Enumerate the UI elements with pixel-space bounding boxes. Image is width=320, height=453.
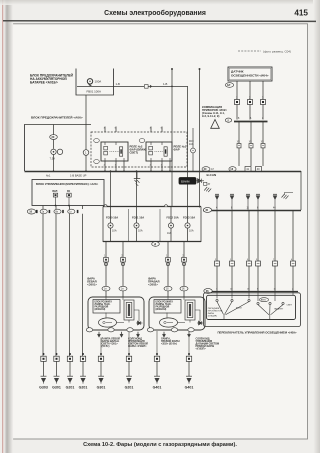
- svg-text:ПЕРЕКЛЮЧАТЕЛЬ УПРАВЛЕНИЯ ОСВЕЩ: ПЕРЕКЛЮЧАТЕЛЬ УПРАВЛЕНИЯ ОСВЕЩЕНИЕМ <Н09…: [217, 330, 296, 334]
- svg-text:<У102П>: <У102П>: [196, 347, 207, 350]
- ground below relay1: [134, 171, 140, 186]
- svg-text:G401: G401: [153, 385, 162, 389]
- fuse block A06 outline: [25, 125, 92, 172]
- left page-edge gradient: [4, 0, 14, 453]
- lamp/connector symbol col4: [80, 353, 85, 361]
- left headlamp label: [87, 277, 97, 287]
- right unit output arrow 1: [162, 332, 165, 338]
- cluster wire 2 down: [250, 121, 252, 166]
- relay dashed box: [91, 132, 187, 167]
- relay R2 pin ovals: [94, 139, 100, 164]
- ground symbol col3: [67, 376, 73, 383]
- pin box 1: [53, 193, 57, 197]
- bus B: [203, 210, 301, 212]
- sensor wire 3: [262, 81, 264, 120]
- connector row ovals and ticks: [36, 209, 78, 214]
- wire to ground col7: [156, 361, 158, 376]
- svg-text:Схема 10-2. Фары (модели с газ: Схема 10-2. Фары (модели с газоразрядным…: [83, 441, 237, 448]
- cluster wire 3 down: [262, 121, 264, 166]
- lamp/connector symbol col1: [41, 353, 46, 361]
- svg-text:10А: 10А: [167, 232, 172, 235]
- relay bottom wires to bus A: [105, 161, 170, 171]
- battery fuse box A01 label: [30, 74, 74, 85]
- svg-text:10А: 10А: [189, 229, 194, 233]
- svg-text:FD32 10А: FD32 10А: [167, 216, 179, 220]
- headlight feed pin connectors: [104, 256, 187, 266]
- crossover hop 1: [104, 205, 107, 207]
- wire col2 from battery fusebox: [85, 95, 87, 150]
- relay top stubs: [105, 127, 162, 133]
- svg-text:Д: Д: [154, 242, 156, 246]
- lamp/connector symbol col3: [67, 353, 72, 361]
- lamp label block 1: [102, 337, 121, 348]
- left headlamp unit box: [88, 297, 144, 330]
- multiplex unit A23 box: [32, 180, 104, 206]
- bus A junction dots: [53, 170, 171, 172]
- crossover hop 2: [164, 205, 167, 207]
- warning triangle symbol: [211, 120, 220, 129]
- signal arrow 5: [273, 194, 277, 210]
- relay R2 label: [130, 145, 147, 155]
- switch bus: [204, 291, 298, 293]
- relay R1: [146, 142, 172, 161]
- feed wire x172 from top: [171, 68, 173, 207]
- fuse FD32: [167, 207, 179, 242]
- node labels above A23: [46, 174, 87, 178]
- wire to ground col5: [100, 361, 102, 376]
- fuse 7.5A symbol: [51, 149, 63, 154]
- switch feed pin tick labels: [215, 259, 293, 261]
- feed wire x199.5 from top: [199, 68, 201, 208]
- long wire 1: [42, 214, 44, 357]
- fuse FD33: [183, 207, 195, 242]
- right xenon lamp: [160, 318, 178, 327]
- ground symbol col4: [80, 376, 86, 383]
- light control switch box: [207, 295, 296, 319]
- bus A right edge down: [300, 171, 302, 210]
- junction dot at x172: [171, 86, 173, 88]
- headlight left feed wire 1: [105, 242, 107, 297]
- relay R1 label: [174, 145, 187, 152]
- right page-edge gradient: [313, 0, 320, 453]
- svg-text:ГАБАРИТ: ГАБАРИТ: [274, 308, 284, 311]
- svg-text:СВЕТ): СВЕТ): [130, 150, 139, 154]
- pin wires with junction dots: [56, 197, 70, 206]
- ground symbol col6: [126, 376, 132, 383]
- ground symbol col5: [98, 376, 104, 383]
- pin box 2: [67, 193, 71, 197]
- relay R1 pin oval: [139, 139, 145, 143]
- svg-text:(КСЕНОН): (КСЕНОН): [95, 309, 106, 311]
- switch AUTO oval: [259, 298, 268, 302]
- lamp label block 4: [196, 337, 220, 350]
- fuse FD3 label: [189, 140, 194, 146]
- right headlamp label: [148, 277, 159, 287]
- left unit output arrow 2: [120, 332, 123, 338]
- svg-text:G201: G201: [125, 385, 134, 389]
- switch right contacts: [257, 302, 284, 319]
- bus A tags: pin boxes 41 40: [245, 167, 262, 172]
- svg-text:FB01 100А: FB01 100А: [87, 90, 101, 94]
- sensor wire pin boxes: [235, 100, 266, 105]
- signal arrow 3: [246, 194, 250, 210]
- svg-text:БАТАРЕЕ <А01Б>: БАТАРЕЕ <А01Б>: [30, 80, 58, 84]
- svg-text:(ОПЦИЯ): (ОПЦИЯ): [208, 316, 217, 318]
- switch fog lamp note: [208, 308, 223, 318]
- svg-text:G201: G201: [66, 385, 75, 389]
- svg-text:ВЗАИМ: ВЗАИМ: [181, 180, 189, 183]
- left unit inner wires: [106, 297, 139, 323]
- svg-text:B-CAN: B-CAN: [207, 173, 217, 177]
- svg-text:G401: G401: [185, 385, 194, 389]
- switch feed pin boxes: [215, 261, 296, 266]
- hatched ground right: [282, 193, 294, 200]
- wire to junction and corner down: [152, 86, 188, 206]
- svg-text:БЛОК УПРАВЛЕНИЯ (МУЛЬТИПЛЕКС): БЛОК УПРАВЛЕНИЯ (МУЛЬТИПЛЕКС) <А23>: [36, 182, 98, 186]
- switch position labels: [236, 305, 293, 311]
- sensor connector oval AP: [225, 83, 233, 88]
- switch feed wire 3: [248, 210, 250, 291]
- svg-text:СВЕТ: СВЕТ: [287, 305, 293, 307]
- tag labels: [237, 142, 264, 144]
- wire to lamp col9: [188, 337, 190, 356]
- FD fuse box top bus: [103, 206, 201, 208]
- right unit inner wires: [167, 297, 200, 323]
- headlight feed ovals: [102, 286, 188, 291]
- svg-text:7,5А: 7,5А: [50, 157, 56, 161]
- svg-text:FD33 10А: FD33 10А: [183, 216, 195, 220]
- ground symbol col2: [54, 376, 60, 383]
- switch top pin stubs: [217, 291, 293, 301]
- left unit bottom ovals: [86, 328, 133, 332]
- right xenon igniter text box: [154, 300, 181, 314]
- ground symbol col1: [41, 376, 47, 383]
- svg-text:G301: G301: [97, 385, 106, 389]
- svg-text:G303: G303: [39, 385, 48, 389]
- sensor wire 1: [236, 81, 238, 120]
- wire fuse output inside box: [77, 85, 114, 87]
- svg-text:(КСЕНОН): (КСЕНОН): [156, 309, 167, 311]
- switch feed wire 2: [231, 210, 233, 291]
- switch feed wire 6: [292, 210, 294, 291]
- wire to lamp col7: [156, 331, 158, 356]
- headlight right feed wire 2: [183, 242, 185, 297]
- lamp/connector symbol col6: [126, 353, 131, 361]
- svg-text:G201: G201: [79, 385, 88, 389]
- svg-text:<Э502>: <Э502>: [148, 283, 158, 287]
- wire to ground col4: [82, 361, 84, 376]
- cluster wire tag boxes: [237, 144, 265, 148]
- diode after module: [196, 179, 204, 183]
- wire 1-B to connector: [114, 85, 145, 87]
- svg-text:1-В: 1-В: [116, 82, 120, 86]
- left diode: [136, 321, 143, 325]
- fuse FD3 symbol: [191, 128, 196, 172]
- cluster wire 1 down: [238, 121, 240, 166]
- lamp/connector symbol col5: [98, 353, 103, 361]
- svg-text:1-В: 1-В: [163, 82, 167, 86]
- relay pin number blobs: [104, 128, 163, 167]
- svg-text:(фото размещ. С04): (фото размещ. С04): [263, 49, 291, 53]
- A23 bottom pin stubs: [43, 206, 83, 210]
- B-CAN black module: [179, 178, 196, 185]
- switch left contacts: [216, 299, 250, 319]
- svg-text:30: 30: [51, 135, 54, 139]
- svg-text:АР: АР: [227, 83, 231, 87]
- top page-edge gradient: [0, 0, 320, 5]
- svg-text:9-2, 9-11-2, 9): 9-2, 9-11-2, 9): [202, 114, 219, 118]
- svg-text:Схемы электрооборудования: Схемы электрооборудования: [104, 9, 206, 17]
- switch feed wire 5: [274, 210, 276, 291]
- relay R2 low-beam: [101, 142, 128, 161]
- FD box bottom oval D: [152, 242, 160, 247]
- lamp/connector symbol col2: [54, 353, 59, 361]
- left igniter module: [124, 300, 134, 320]
- right unit output arrow 2: [187, 332, 190, 338]
- svg-text:АВТО: АВТО: [261, 299, 267, 302]
- svg-text:ФАРЫ <У102Л>: ФАРЫ <У102Л>: [128, 345, 147, 348]
- headlight right feed wire 1: [167, 242, 169, 297]
- ground symbol col7: [154, 376, 160, 383]
- long wire 4: [82, 214, 84, 357]
- wire to ground col2: [56, 361, 58, 376]
- light control switch outer box: [204, 293, 301, 327]
- svg-text:БЛОК ПРЕДОХРАНИТЕЛЕЙ <А06>: БЛОК ПРЕДОХРАНИТЕЛЕЙ <А06>: [31, 116, 83, 120]
- sensor wire 2: [249, 81, 251, 120]
- signal arrow 1: [215, 194, 219, 210]
- switch feed wire 1: [216, 210, 218, 291]
- svg-text:10А: 10А: [112, 229, 117, 233]
- wire to lamp col6: [128, 332, 130, 356]
- connector B inline: [145, 85, 152, 89]
- svg-text:G301: G301: [52, 385, 61, 389]
- svg-text:FD30 10А: FD30 10А: [106, 216, 118, 220]
- switch bus oval 36: [204, 289, 212, 294]
- light sensor I04 box: [228, 67, 272, 81]
- switch feed wire 4: [257, 210, 259, 291]
- sensor pin number blobs: [236, 98, 264, 100]
- junction bar pin numbers: [238, 118, 264, 120]
- node 30 oval: [50, 135, 58, 140]
- left xenon lamp: [99, 318, 117, 327]
- battery fuse box A01 outline: [76, 69, 114, 96]
- left xenon igniter text box: [93, 300, 120, 314]
- left unit output arrow 3: [136, 332, 139, 338]
- svg-text:FD31 10А: FD31 10А: [132, 216, 144, 220]
- svg-text:<Э52> (55 Вт): <Э52> (55 Вт): [161, 342, 177, 345]
- lamp/connector symbol col7: [154, 353, 159, 361]
- long wire 2: [55, 214, 57, 357]
- wire fuse to bus A: [53, 155, 55, 172]
- ground symbol col9: [186, 376, 192, 383]
- right igniter module: [185, 300, 195, 320]
- lamp label block 3: [161, 337, 180, 345]
- wire bus A to FD31: [136, 171, 138, 207]
- wire node1 to bus A: [85, 155, 87, 171]
- svg-text:1-В BASE UP: 1-В BASE UP: [70, 174, 87, 178]
- svg-text:(55 Вт): (55 Вт): [102, 345, 110, 348]
- lamp/connector symbol col9: [186, 353, 191, 361]
- right headlamp unit box: [149, 297, 205, 330]
- svg-text:10А: 10А: [138, 229, 143, 233]
- signal arrow 4: [256, 194, 260, 210]
- wire to lamp col5: [100, 338, 102, 357]
- svg-text:ВЫКЛ: ВЫКЛ: [236, 308, 242, 310]
- FD fuse box dividers: [129, 209, 161, 242]
- node 1 ring: [83, 150, 89, 156]
- FD fuse box sides: [103, 207, 201, 243]
- svg-text:РА: РА: [67, 190, 70, 193]
- header rule: [3, 20, 316, 23]
- photo note dashed line: [238, 50, 261, 52]
- wire to ground col1: [43, 361, 45, 376]
- red spine line: [2, 0, 3, 453]
- left unit output arrow 1: [97, 332, 100, 338]
- bus A: [25, 171, 302, 173]
- connector row oval 16: [27, 209, 35, 214]
- svg-text:ФАР: ФАР: [174, 147, 180, 151]
- hatched ground B-CAN: [204, 187, 211, 192]
- oval connector at bar: [225, 118, 231, 122]
- junction bar: [234, 121, 268, 123]
- bus A tags: oval 16: [229, 167, 236, 172]
- bus B pin numbers: [216, 207, 276, 209]
- small tag ZU: [204, 182, 211, 186]
- long wire 3: [69, 214, 71, 357]
- right diode: [197, 321, 204, 325]
- svg-text:100А: 100А: [95, 80, 102, 84]
- lamp label block 2: [128, 337, 148, 348]
- svg-text:415: 415: [294, 9, 308, 18]
- right unit bottom ovals: [147, 328, 194, 332]
- instrument cluster I02 label: [202, 105, 227, 118]
- bus A tags: oval 20: [202, 167, 215, 172]
- fuse FD31: [132, 207, 144, 242]
- wire to ground col9: [188, 361, 190, 376]
- svg-text:ВКЛ: ВКЛ: [52, 190, 57, 193]
- svg-text:ОСВЕЩЕННОСТИ <И04>: ОСВЕЩЕННОСТИ <И04>: [231, 73, 269, 77]
- wire to ground col3: [69, 361, 71, 376]
- wire bus A to FD30: [110, 171, 112, 207]
- wire to ground col6: [128, 361, 130, 376]
- headlight left feed wire 2: [122, 242, 124, 297]
- fuse FD30: [106, 207, 118, 242]
- wire feed col1: [53, 125, 55, 149]
- FD fuse box bottom bus: [103, 241, 201, 243]
- fuse FB01 100A: [87, 79, 92, 87]
- signal arrow 2: [230, 194, 234, 210]
- svg-text:<Э501>: <Э501>: [87, 283, 97, 287]
- bus B oval 45: [203, 208, 211, 213]
- switch bus pin numbers: [216, 289, 294, 291]
- svg-text:№1: №1: [46, 174, 51, 178]
